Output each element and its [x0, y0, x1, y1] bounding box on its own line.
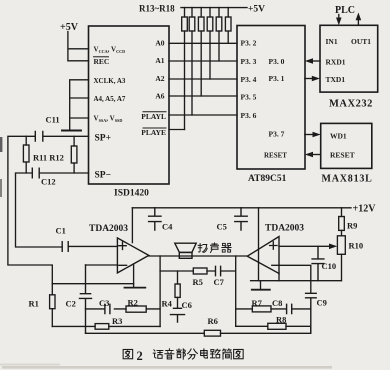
svg-text:VCCA, VCCD: VCCA, VCCD: [94, 46, 126, 55]
resistor R14: [189, 8, 195, 115]
wire SP- line to C12: [16, 173, 89, 247]
svg-text:SP+: SP+: [95, 134, 112, 144]
svg-text:R10: R10: [349, 241, 364, 251]
svg-text:R1: R1: [29, 299, 39, 309]
resistor R16: [207, 8, 213, 79]
svg-text:C9: C9: [317, 298, 327, 308]
svg-text:P3. 4: P3. 4: [241, 75, 257, 84]
svg-text:IN1: IN1: [326, 37, 338, 46]
svg-text:A6: A6: [155, 92, 164, 101]
ground (ISD analog): [62, 130, 81, 132]
wire right amp plus input to R10 wiper arrow: [279, 245, 330, 247]
svg-text:R4: R4: [162, 299, 173, 309]
wire rail to left amp top: [131, 208, 133, 243]
resistor R5: [193, 268, 207, 274]
wire OUT1 to PLC arrow up: [357, 20, 359, 25]
resistor R13: [182, 8, 188, 130]
svg-text:A2: A2: [155, 74, 164, 83]
potentiometer R10: [341, 230, 343, 280]
wire PLC to IN1 arrow down: [338, 15, 340, 19]
wire XCLK/A4/Vss ground bus: [70, 80, 89, 130]
scan artifact bottom smudge: [2, 366, 332, 369]
wire output drop to feedback: [159, 256, 161, 327]
svg-text:MAX813L: MAX813L: [322, 174, 373, 185]
svg-text:A0: A0: [155, 39, 164, 48]
scan artifact left edge mark: [0, 137, 2, 152]
svg-text:C7: C7: [214, 277, 225, 287]
wire PLAYE to R13: [169, 129, 185, 131]
svg-text:C5: C5: [217, 222, 227, 232]
svg-text:P3. 7: P3. 7: [269, 130, 285, 139]
svg-text:ISD1420: ISD1420: [114, 189, 149, 199]
ground (right amp): [260, 281, 262, 290]
svg-text:OUT1: OUT1: [351, 37, 371, 46]
svg-text:SP−: SP−: [95, 171, 112, 181]
svg-text:R7: R7: [252, 298, 263, 308]
svg-text:R2: R2: [128, 298, 138, 308]
svg-text:RESET: RESET: [264, 152, 287, 160]
+12V supply rail: [132, 207, 351, 209]
svg-text:TDA2003: TDA2003: [89, 224, 128, 234]
capacitor C2: [80, 265, 92, 333]
wire SP+ line to C11: [8, 136, 89, 283]
svg-text:PLAYL: PLAYL: [141, 112, 166, 121]
svg-text:PLAYE: PLAYE: [141, 128, 166, 137]
svg-text:C1: C1: [56, 226, 66, 236]
svg-text:P3. 6: P3. 6: [241, 111, 257, 120]
wire rail to right amp ground drop: [258, 208, 260, 281]
wire MAX813 RESET to MCU RESET with arrow: [311, 154, 321, 156]
capacitor C11: [35, 132, 43, 142]
svg-text:P3. 0: P3. 0: [269, 57, 285, 66]
wire right amp minus input: [279, 265, 311, 293]
scan artifact left edge mark 2: [0, 179, 2, 197]
capacitor C8: [287, 304, 292, 313]
resistor R15: [198, 8, 204, 96]
capacitor C10: [312, 246, 324, 280]
svg-text:C8: C8: [272, 298, 282, 308]
wire +5V pull-up rail: [181, 7, 247, 9]
capacitor C4: [149, 208, 161, 230]
wire right amp ground line: [251, 280, 342, 282]
svg-text:+5V: +5V: [248, 5, 265, 15]
wire bottom line: [86, 332, 311, 334]
svg-text:R8: R8: [276, 315, 286, 325]
resistor R11: [25, 136, 27, 173]
caption 图2 语音部分电路简图: [123, 349, 133, 358]
wire P3.7 to WD1 with arrow: [305, 134, 314, 136]
svg-text:C11: C11: [46, 115, 60, 125]
svg-text:P3. 5: P3. 5: [241, 93, 257, 102]
wire right amp bottom corner to ground line: [278, 274, 280, 281]
wire C1 to left amp + input: [68, 245, 117, 247]
svg-text:RXD1: RXD1: [326, 58, 346, 67]
resistor R6: [204, 330, 220, 336]
wire output node left amp to right amp: [149, 255, 248, 257]
svg-text:R11 R12: R11 R12: [33, 153, 64, 163]
svg-text:PLC: PLC: [335, 5, 355, 16]
svg-text:XCLK, A3: XCLK, A3: [94, 77, 126, 85]
svg-text:R5: R5: [193, 277, 203, 287]
svg-text:C4: C4: [162, 222, 173, 232]
svg-text:A1: A1: [155, 56, 164, 65]
resistor R8: [268, 323, 286, 329]
wire R3 feedback line: [52, 325, 160, 327]
MAX813L U4 box: [321, 123, 372, 168]
svg-text:+5V: +5V: [60, 22, 79, 33]
svg-text:R3: R3: [112, 316, 122, 326]
wire P3.1 to TXD1 with arrow: [305, 78, 313, 80]
label speaker 扬声器: [198, 244, 207, 253]
wire A6 to P3.5: [169, 95, 237, 97]
capacitor C3: [105, 304, 110, 313]
svg-text:TXD1: TXD1: [326, 75, 346, 84]
wire A0 to P3.2: [169, 42, 237, 44]
svg-text:AT89C51: AT89C51: [248, 174, 287, 184]
ISD1420 U1 box: [89, 26, 170, 184]
svg-text:R9: R9: [347, 221, 357, 231]
wire left amp minus input: [86, 264, 118, 266]
capacitor C9: [306, 293, 317, 333]
svg-text:C2: C2: [66, 299, 76, 309]
svg-text:C3: C3: [99, 298, 109, 308]
resistor R18: [225, 8, 231, 44]
wire speaker tap line: [160, 256, 236, 326]
svg-text:R6: R6: [208, 316, 218, 326]
svg-text:C10: C10: [322, 261, 337, 271]
speaker LS1: [175, 243, 196, 258]
capacitor C1: [62, 242, 68, 252]
wire RXD1 to P3.0 with arrow: [311, 60, 320, 62]
svg-text:A4, A5, A7: A4, A5, A7: [94, 95, 126, 103]
resistor R9: [341, 208, 343, 217]
svg-text:R13~R18: R13~R18: [139, 4, 175, 14]
svg-text:P3. 2: P3. 2: [241, 39, 257, 48]
capacitor C12: [32, 168, 39, 178]
resistor R1: [51, 284, 53, 327]
wire C3/R2 line: [86, 308, 161, 310]
svg-text:TDA2003: TDA2003: [265, 224, 304, 234]
capacitor C7: [216, 266, 221, 275]
resistor R2: [126, 306, 146, 312]
AT89C51 U2 box: [237, 26, 305, 170]
resistor R7: [252, 306, 271, 312]
wire R7/C8 line: [236, 308, 311, 310]
MAX232 U3 box: [320, 25, 378, 92]
wire A1 to P3.3: [169, 60, 237, 62]
svg-text:C12: C12: [41, 177, 56, 187]
svg-text:VSSA, VSSD: VSSA, VSSD: [94, 115, 123, 124]
wire PLAYL to P3.6: [169, 114, 237, 116]
op-amp U5 TDA2003 (left): [117, 238, 148, 273]
svg-text:MAX232: MAX232: [329, 99, 373, 110]
wire R8 line: [236, 326, 311, 333]
resistor R3: [95, 324, 109, 330]
op-amp U6 TDA2003 (right): [247, 237, 279, 274]
capacitor C6: [171, 308, 185, 322]
svg-text:+12V: +12V: [353, 204, 377, 215]
ground (left amp): [133, 264, 135, 287]
svg-text:C6: C6: [182, 300, 192, 310]
resistor R17: [216, 8, 222, 61]
svg-text:RESET: RESET: [330, 151, 355, 160]
wire ground return line (R1/C2 top): [52, 283, 133, 285]
svg-text:P3. 1: P3. 1: [269, 74, 285, 83]
svg-text:2: 2: [137, 349, 143, 363]
resistor R4: [177, 271, 179, 308]
svg-text:P3. 3: P3. 3: [241, 57, 257, 66]
capacitor C5: [235, 208, 247, 230]
svg-text:REC: REC: [94, 57, 110, 66]
wire A2 to P3.4: [169, 78, 237, 80]
svg-text:WD1: WD1: [330, 132, 347, 141]
wire +5V to Vcc and REC pins: [68, 32, 89, 61]
resistor R12: [73, 136, 75, 173]
